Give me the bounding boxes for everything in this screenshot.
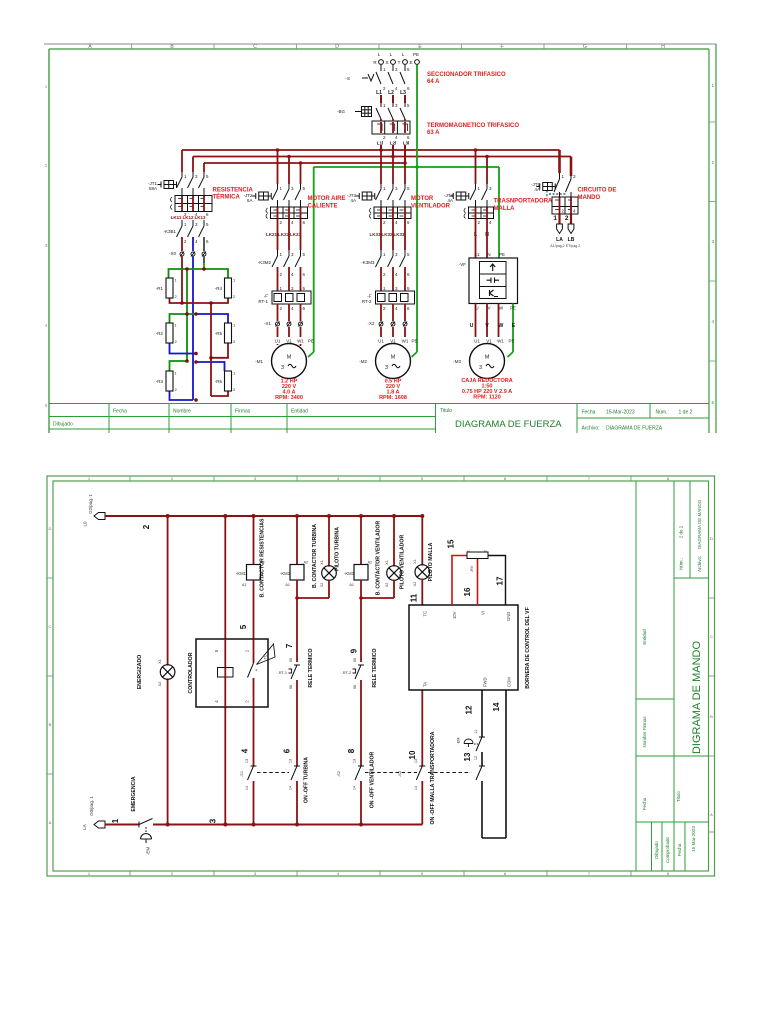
svg-text:G: G <box>583 44 587 50</box>
svg-text:5: 5 <box>421 871 424 876</box>
svg-text:M: M <box>485 355 490 361</box>
svg-text:6: 6 <box>303 220 306 225</box>
svg-text:A2: A2 <box>368 561 373 565</box>
svg-text:DIAGRAMA DE FUERZA: DIAGRAMA DE FUERZA <box>455 419 562 430</box>
svg-text:-EM: -EM <box>146 847 151 856</box>
svg-text:5: 5 <box>421 476 424 481</box>
svg-text:X2: X2 <box>320 583 324 588</box>
svg-text:2: 2 <box>45 163 48 168</box>
svg-text:X1: X1 <box>385 560 389 565</box>
svg-text:D: D <box>710 536 713 541</box>
svg-text:3: 3 <box>489 186 492 191</box>
svg-text:4: 4 <box>489 220 492 225</box>
svg-text:Entidad: Entidad <box>291 409 308 415</box>
svg-text:Dibujado: Dibujado <box>53 422 73 428</box>
svg-text:RELE TERMICO: RELE TERMICO <box>372 648 378 687</box>
svg-text:4: 4 <box>395 86 398 91</box>
svg-text:L0: L0 <box>83 521 88 527</box>
svg-text:V: V <box>485 323 489 329</box>
svg-text:6: 6 <box>206 212 209 217</box>
svg-text:14: 14 <box>289 786 293 790</box>
svg-text:1: 1 <box>245 649 250 652</box>
svg-text:2: 2 <box>171 871 174 876</box>
svg-text:1: 1 <box>184 222 187 227</box>
svg-text:DIGRAMA DE MANDO: DIGRAMA DE MANDO <box>691 641 703 755</box>
svg-text:A2: A2 <box>304 561 309 565</box>
svg-text:L: L <box>378 52 381 57</box>
svg-text:5: 5 <box>303 286 306 291</box>
svg-text:6: 6 <box>407 220 410 225</box>
svg-text:-K3B1: -K3B1 <box>163 229 176 234</box>
svg-text:RPM: 3400: RPM: 3400 <box>275 395 303 401</box>
svg-text:2: 2 <box>175 339 178 344</box>
svg-text:C: C <box>253 44 257 50</box>
svg-text:MOTOR AIRE: MOTOR AIRE <box>308 196 346 202</box>
svg-text:3: 3 <box>395 252 398 257</box>
svg-text:1: 1 <box>175 278 178 283</box>
svg-text:Núm.:: Núm.: <box>656 410 669 416</box>
svg-text:2: 2 <box>142 524 151 529</box>
svg-text:B: B <box>49 722 52 727</box>
svg-text:4: 4 <box>291 306 294 311</box>
svg-text:ENERGIZADO: ENERGIZADO <box>137 655 143 690</box>
svg-text:16: 16 <box>463 587 472 596</box>
svg-text:PILOTO VENTILADOR: PILOTO VENTILADOR <box>400 535 406 590</box>
svg-text:X1: X1 <box>320 560 324 565</box>
svg-text:V: V <box>487 306 490 311</box>
svg-text:Comprobado: Comprobado <box>665 836 670 863</box>
svg-text:B. CONTACTOR TURBINA: B. CONTACTOR TURBINA <box>312 524 318 588</box>
svg-text:N: N <box>487 252 490 257</box>
svg-text:V1: V1 <box>486 339 492 344</box>
svg-text:H: H <box>661 44 665 50</box>
svg-text:CIRCUITO DE: CIRCUITO DE <box>578 188 617 194</box>
svg-text:6: 6 <box>407 135 410 140</box>
svg-text:Dibujado: Dibujado <box>654 841 659 859</box>
svg-text:10: 10 <box>408 750 417 759</box>
svg-text:E: E <box>512 323 516 329</box>
svg-text:4: 4 <box>241 748 250 753</box>
svg-text:6: 6 <box>504 476 507 481</box>
svg-text:FWD: FWD <box>483 677 488 687</box>
svg-text:LK21: LK21 <box>266 232 278 237</box>
svg-text:13: 13 <box>463 752 472 761</box>
svg-text:F: F <box>500 44 503 50</box>
svg-text:1: 1 <box>280 186 283 191</box>
svg-text:14: 14 <box>245 786 249 790</box>
svg-text:4: 4 <box>45 323 48 328</box>
svg-text:11: 11 <box>474 730 478 734</box>
svg-text:-S: -S <box>346 76 351 81</box>
svg-text:X1: X1 <box>413 559 417 564</box>
svg-text:1: 1 <box>383 186 386 191</box>
svg-text:1: 1 <box>175 371 178 376</box>
svg-text:8: 8 <box>667 871 670 876</box>
svg-text:5: 5 <box>407 103 410 108</box>
svg-text:3: 3 <box>395 286 398 291</box>
svg-text:LA: LA <box>82 824 87 830</box>
svg-text:2: 2 <box>233 294 236 299</box>
svg-text:X2: X2 <box>158 682 162 687</box>
svg-text:W1: W1 <box>297 339 304 344</box>
svg-text:-R3: -R3 <box>156 379 164 384</box>
svg-text:MANDO: MANDO <box>578 195 601 201</box>
svg-text:1: 1 <box>175 323 178 328</box>
svg-text:6A: 6A <box>247 198 253 203</box>
svg-text:C: C <box>49 624 52 629</box>
svg-text:3: 3 <box>385 365 388 371</box>
svg-text:TÉRMICA: TÉRMICA <box>213 193 241 201</box>
svg-text:X1: X1 <box>158 659 162 664</box>
svg-text:-VF: -VF <box>459 262 467 267</box>
svg-text:4: 4 <box>395 306 398 311</box>
svg-text:6: 6 <box>407 272 410 277</box>
svg-text:RT-1: RT-1 <box>258 299 268 304</box>
svg-text:-EM: -EM <box>457 738 461 745</box>
svg-text:1: 1 <box>184 174 187 179</box>
svg-text:3: 3 <box>209 818 218 823</box>
svg-text:-K3M3: -K3M3 <box>361 260 375 265</box>
svg-text:-BG: -BG <box>337 109 346 114</box>
svg-text:-RT-1: -RT-1 <box>278 671 287 675</box>
svg-text:G2/pag. 1: G2/pag. 1 <box>88 494 93 514</box>
svg-text:1: 1 <box>280 252 283 257</box>
svg-text:U: U <box>475 306 478 311</box>
svg-text:5: 5 <box>45 403 48 408</box>
svg-text:1: 1 <box>467 550 471 552</box>
svg-text:PILOTO MALLA: PILOTO MALLA <box>428 542 434 581</box>
svg-text:15-Mar-2023: 15-Mar-2023 <box>691 826 696 852</box>
svg-text:4: 4 <box>195 239 198 244</box>
svg-text:3: 3 <box>291 252 294 257</box>
svg-text:TC: TC <box>263 654 268 659</box>
svg-text:3: 3 <box>395 186 398 191</box>
svg-text:A1/pag.2: A1/pag.2 <box>550 244 564 248</box>
svg-text:Fecha: Fecha <box>677 843 682 856</box>
svg-text:CALIENTE: CALIENTE <box>308 204 338 210</box>
svg-text:2: 2 <box>184 239 187 244</box>
svg-text:L: L <box>390 52 393 57</box>
svg-text:1 de 2: 1 de 2 <box>679 410 693 416</box>
svg-text:3: 3 <box>195 222 198 227</box>
svg-text:2: 2 <box>383 135 386 140</box>
svg-text:11: 11 <box>410 593 419 602</box>
svg-text:PE: PE <box>510 306 516 311</box>
svg-text:4: 4 <box>337 476 340 481</box>
svg-text:A: A <box>49 820 52 825</box>
svg-text:-M2: -M2 <box>359 359 367 364</box>
svg-text:ET/pag.2: ET/pag.2 <box>566 244 581 248</box>
svg-text:3: 3 <box>395 103 398 108</box>
svg-text:15: 15 <box>447 539 456 548</box>
svg-text:2: 2 <box>280 220 283 225</box>
svg-text:6: 6 <box>407 86 410 91</box>
svg-text:-S3: -S3 <box>398 771 402 777</box>
svg-text:LK13: LK13 <box>194 215 206 220</box>
svg-text:6: 6 <box>283 748 292 753</box>
svg-text:DIAGRAMA DE FUERZA: DIAGRAMA DE FUERZA <box>606 426 663 432</box>
svg-text:G0/pag. 1: G0/pag. 1 <box>89 796 94 816</box>
svg-text:5: 5 <box>407 67 410 72</box>
svg-text:5: 5 <box>214 649 219 652</box>
svg-text:TC: TC <box>423 611 428 617</box>
svg-text:95: 95 <box>353 658 357 662</box>
svg-text:PE: PE <box>411 339 417 344</box>
svg-text:PE: PE <box>499 252 505 257</box>
svg-text:A1: A1 <box>349 583 354 587</box>
svg-text:SECCIONADOR TRIFASICO: SECCIONADOR TRIFASICO <box>427 72 506 78</box>
svg-text:5: 5 <box>206 222 209 227</box>
svg-text:1: 1 <box>111 818 120 823</box>
svg-text:+: + <box>254 668 259 671</box>
svg-text:64 A: 64 A <box>427 79 440 85</box>
svg-text:Firmas: Firmas <box>235 409 251 415</box>
svg-text:ON -OFF VENTILADOR: ON -OFF VENTILADOR <box>370 752 376 809</box>
svg-text:4: 4 <box>395 220 398 225</box>
svg-text:PILOTO TURBINA: PILOTO TURBINA <box>335 527 341 571</box>
svg-text:3: 3 <box>45 243 48 248</box>
svg-text:U1: U1 <box>378 339 384 344</box>
svg-text:Nombre: Nombre <box>173 409 191 415</box>
svg-text:96: 96 <box>289 685 293 689</box>
svg-text:-X2: -X2 <box>367 321 375 326</box>
svg-text:TA: TA <box>423 682 428 687</box>
svg-text:LK31: LK31 <box>369 232 381 237</box>
svg-text:RELE TERMICO: RELE TERMICO <box>308 648 314 687</box>
svg-text:1: 1 <box>280 286 283 291</box>
svg-text:1: 1 <box>233 278 236 283</box>
svg-text:B: B <box>710 714 713 719</box>
svg-text:2: 2 <box>233 339 236 344</box>
svg-text:1: 1 <box>383 103 386 108</box>
svg-text:RT-2: RT-2 <box>362 299 372 304</box>
svg-text:ON -OFF MALLA TRANSPORTADORA: ON -OFF MALLA TRANSPORTADORA <box>430 731 436 824</box>
svg-text:-X1: -X1 <box>264 321 272 326</box>
svg-text:A: A <box>710 812 713 817</box>
svg-text:LB: LB <box>568 237 575 243</box>
svg-text:S: S <box>385 60 388 65</box>
svg-text:12: 12 <box>474 756 478 760</box>
svg-text:EMERGENCIA: EMERGENCIA <box>131 776 137 811</box>
svg-text:5: 5 <box>407 286 410 291</box>
svg-text:Entidad: Entidad <box>642 629 647 645</box>
svg-text:3: 3 <box>395 67 398 72</box>
svg-text:13: 13 <box>353 759 357 763</box>
svg-text:-R6: -R6 <box>215 379 223 384</box>
svg-text:4: 4 <box>291 272 294 277</box>
svg-text:2 de 2: 2 de 2 <box>679 525 684 538</box>
svg-text:6: 6 <box>206 239 209 244</box>
svg-text:Titulo: Titulo <box>676 791 681 802</box>
svg-text:Archivo:: Archivo: <box>697 556 702 572</box>
svg-text:-F: -F <box>367 294 371 299</box>
svg-text:2: 2 <box>383 272 386 277</box>
svg-text:L1: L1 <box>474 252 480 257</box>
svg-text:96: 96 <box>353 685 357 689</box>
svg-text:-KM3: -KM3 <box>344 571 355 576</box>
svg-text:L1l: L1l <box>377 141 384 146</box>
svg-text:DIAGRAMA DE MANDO: DIAGRAMA DE MANDO <box>697 499 702 549</box>
svg-text:2: 2 <box>383 86 386 91</box>
svg-text:RPM: 1120: RPM: 1120 <box>473 395 501 401</box>
svg-text:8: 8 <box>347 748 356 753</box>
svg-text:W1: W1 <box>402 339 409 344</box>
svg-text:1: 1 <box>562 174 565 179</box>
svg-text:5: 5 <box>711 400 714 405</box>
svg-text:3: 3 <box>291 286 294 291</box>
svg-text:5: 5 <box>407 186 410 191</box>
svg-text:RPM: 1608: RPM: 1608 <box>379 395 407 401</box>
svg-text:1: 1 <box>45 84 48 89</box>
svg-text:V1: V1 <box>286 339 292 344</box>
svg-text:5: 5 <box>303 252 306 257</box>
svg-text:VI: VI <box>481 611 486 615</box>
svg-text:13: 13 <box>414 759 418 763</box>
svg-text:W: W <box>499 306 504 311</box>
svg-text:T: T <box>398 60 401 65</box>
svg-text:U1: U1 <box>474 339 480 344</box>
svg-text:LK22: LK22 <box>278 232 290 237</box>
svg-text:14: 14 <box>492 702 501 711</box>
svg-text:-M1: -M1 <box>255 359 263 364</box>
svg-text:13: 13 <box>245 759 249 763</box>
svg-text:LK32: LK32 <box>381 232 393 237</box>
svg-text:2: 2 <box>478 220 481 225</box>
svg-text:X2: X2 <box>413 582 417 587</box>
svg-text:14: 14 <box>353 786 357 790</box>
svg-text:Fecha: Fecha <box>113 409 127 415</box>
svg-text:1: 1 <box>478 186 481 191</box>
svg-text:M: M <box>391 355 396 361</box>
svg-text:-RT-2: -RT-2 <box>342 671 351 675</box>
svg-text:V1: V1 <box>390 339 396 344</box>
svg-text:TRASNPORTADORA: TRASNPORTADORA <box>494 199 554 205</box>
svg-text:1: 1 <box>88 476 91 481</box>
svg-text:1: 1 <box>233 323 236 328</box>
svg-text:-M3: -M3 <box>453 359 461 364</box>
svg-text:2: 2 <box>175 387 178 392</box>
svg-text:Titulo: Titulo <box>440 408 452 414</box>
svg-text:Fecha: Fecha <box>642 797 647 810</box>
svg-text:95: 95 <box>289 658 293 662</box>
svg-text:LK11: LK11 <box>171 215 182 220</box>
svg-text:-KM2: -KM2 <box>280 571 291 576</box>
svg-text:2: 2 <box>565 215 569 222</box>
svg-text:3: 3 <box>711 239 714 244</box>
svg-text:4A: 4A <box>447 198 453 203</box>
svg-text:1: 1 <box>383 67 386 72</box>
svg-text:-KM1: -KM1 <box>236 571 247 576</box>
svg-text:PE: PE <box>413 52 419 57</box>
svg-text:M: M <box>287 355 292 361</box>
svg-text:D: D <box>49 526 52 531</box>
svg-text:U1: U1 <box>275 339 281 344</box>
svg-text:2: 2 <box>245 700 250 703</box>
svg-text:L2l: L2l <box>390 141 397 146</box>
svg-text:4: 4 <box>214 700 219 703</box>
svg-text:L3l: L3l <box>403 141 410 146</box>
svg-text:-K3M2: -K3M2 <box>258 260 272 265</box>
svg-text:1: 1 <box>553 215 557 222</box>
svg-text:2: 2 <box>233 387 236 392</box>
svg-text:1: 1 <box>383 252 386 257</box>
svg-text:9: 9 <box>350 648 359 653</box>
svg-text:7: 7 <box>588 871 591 876</box>
svg-text:4: 4 <box>337 871 340 876</box>
svg-text:MALLA: MALLA <box>494 206 516 212</box>
svg-text:Archivo:: Archivo: <box>582 426 600 432</box>
svg-text:COM: COM <box>507 677 512 687</box>
svg-text:4: 4 <box>711 319 714 324</box>
svg-text:-S1: -S1 <box>240 771 244 777</box>
svg-text:Fecha: Fecha <box>582 410 596 416</box>
svg-text:LK33: LK33 <box>393 232 405 237</box>
svg-text:4: 4 <box>395 272 398 277</box>
svg-text:5: 5 <box>303 186 306 191</box>
svg-text:-R4: -R4 <box>215 286 223 291</box>
svg-text:-F: -F <box>264 294 268 299</box>
svg-text:L: L <box>402 52 405 57</box>
svg-text:-RV: -RV <box>470 565 474 572</box>
svg-text:13: 13 <box>289 759 293 763</box>
svg-text:3: 3 <box>291 186 294 191</box>
svg-text:4A: 4A <box>350 198 356 203</box>
svg-text:4A: 4A <box>534 187 540 192</box>
svg-text:W1: W1 <box>497 339 504 344</box>
svg-text:TERMOMAGNETICO TRIFASICO: TERMOMAGNETICO TRIFASICO <box>427 123 519 129</box>
svg-text:2: 2 <box>484 550 488 552</box>
svg-text:6: 6 <box>303 306 306 311</box>
svg-text:PE: PE <box>308 339 314 344</box>
svg-text:Nombre Firmas: Nombre Firmas <box>642 716 647 748</box>
svg-text:6: 6 <box>303 272 306 277</box>
svg-text:E: E <box>409 60 412 65</box>
svg-text:LA: LA <box>556 237 563 243</box>
svg-text:VENTILADOR: VENTILADOR <box>411 204 451 210</box>
svg-text:PE: PE <box>508 339 514 344</box>
svg-text:10V: 10V <box>452 611 457 619</box>
svg-text:2: 2 <box>562 209 565 214</box>
svg-text:BORNERA DE CONTROL DEL VF: BORNERA DE CONTROL DEL VF <box>525 607 531 688</box>
svg-text:1: 1 <box>711 83 714 88</box>
svg-text:6: 6 <box>407 306 410 311</box>
svg-text:63 A: 63 A <box>427 130 440 136</box>
svg-text:D: D <box>335 44 339 50</box>
svg-text:A1: A1 <box>242 583 247 587</box>
svg-text:LK12: LK12 <box>182 215 194 220</box>
svg-text:-X0: -X0 <box>169 251 177 256</box>
svg-text:-R1: -R1 <box>156 286 164 291</box>
svg-text:C: C <box>710 634 713 639</box>
svg-text:U: U <box>470 323 474 329</box>
svg-text:3: 3 <box>195 174 198 179</box>
svg-text:6: 6 <box>504 871 507 876</box>
svg-text:3: 3 <box>479 365 482 371</box>
svg-text:B. CONTACTOR VENTILADOR: B. CONTACTOR VENTILADOR <box>376 521 382 596</box>
svg-text:A1: A1 <box>285 583 290 587</box>
svg-text:17: 17 <box>496 576 505 585</box>
svg-text:5: 5 <box>206 174 209 179</box>
svg-text:CONTROLADOR: CONTROLADOR <box>188 652 194 693</box>
svg-text:3: 3 <box>254 871 257 876</box>
svg-text:58A: 58A <box>149 186 157 191</box>
svg-text:5: 5 <box>239 624 248 629</box>
svg-text:7: 7 <box>285 643 294 648</box>
svg-text:Núm.:: Núm.: <box>679 558 684 570</box>
svg-text:2: 2 <box>280 306 283 311</box>
svg-text:12: 12 <box>465 705 474 714</box>
svg-text:-S2: -S2 <box>337 771 341 777</box>
